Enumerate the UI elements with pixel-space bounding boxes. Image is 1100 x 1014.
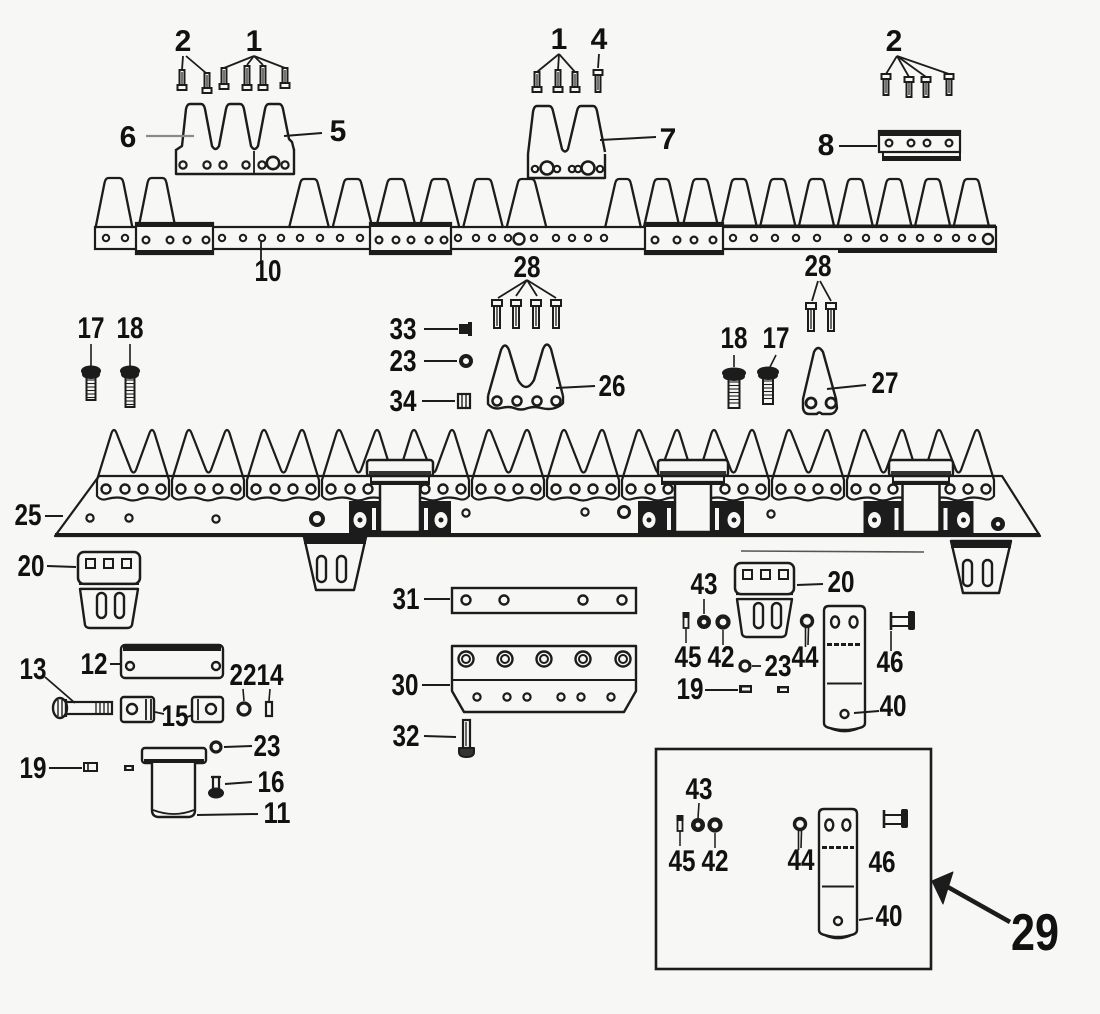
svg-text:13: 13 (20, 653, 47, 686)
svg-text:33: 33 (390, 313, 417, 346)
svg-text:31: 31 (393, 583, 420, 616)
svg-text:17: 17 (763, 322, 790, 355)
svg-text:7: 7 (660, 123, 677, 156)
svg-text:43: 43 (686, 773, 713, 806)
svg-text:16: 16 (258, 766, 285, 799)
svg-text:17: 17 (78, 312, 105, 345)
svg-text:43: 43 (691, 568, 718, 601)
svg-text:46: 46 (869, 846, 896, 879)
svg-text:23: 23 (765, 650, 792, 683)
svg-text:15: 15 (162, 700, 189, 733)
svg-text:22: 22 (230, 659, 257, 692)
svg-text:46: 46 (877, 646, 904, 679)
svg-text:44: 44 (788, 844, 815, 877)
svg-text:1: 1 (551, 23, 568, 56)
svg-text:2: 2 (886, 25, 903, 58)
svg-text:45: 45 (669, 845, 696, 878)
svg-text:8: 8 (818, 129, 835, 162)
svg-text:25: 25 (15, 499, 42, 532)
svg-text:12: 12 (81, 648, 108, 681)
svg-text:32: 32 (393, 720, 420, 753)
svg-text:23: 23 (254, 730, 281, 763)
svg-text:10: 10 (255, 255, 282, 288)
svg-text:29: 29 (1011, 904, 1059, 962)
svg-text:44: 44 (792, 641, 819, 674)
svg-text:26: 26 (599, 370, 626, 403)
svg-text:42: 42 (702, 845, 729, 878)
svg-text:1: 1 (246, 25, 263, 58)
svg-text:28: 28 (805, 250, 832, 283)
svg-text:14: 14 (257, 659, 284, 692)
svg-text:6: 6 (120, 121, 137, 154)
svg-text:19: 19 (677, 673, 704, 706)
svg-text:34: 34 (390, 385, 417, 418)
svg-text:20: 20 (18, 550, 45, 583)
svg-text:40: 40 (876, 900, 903, 933)
svg-text:18: 18 (721, 322, 748, 355)
svg-text:40: 40 (880, 690, 907, 723)
svg-text:28: 28 (514, 251, 541, 284)
svg-text:30: 30 (392, 669, 419, 702)
svg-text:27: 27 (872, 367, 899, 400)
svg-text:23: 23 (390, 345, 417, 378)
svg-text:19: 19 (20, 752, 47, 785)
svg-text:42: 42 (708, 641, 735, 674)
svg-text:18: 18 (117, 312, 144, 345)
svg-text:45: 45 (675, 641, 702, 674)
svg-text:20: 20 (828, 566, 855, 599)
svg-text:2: 2 (175, 25, 192, 58)
svg-text:11: 11 (264, 797, 291, 830)
svg-text:4: 4 (591, 23, 608, 56)
svg-text:5: 5 (330, 115, 347, 148)
